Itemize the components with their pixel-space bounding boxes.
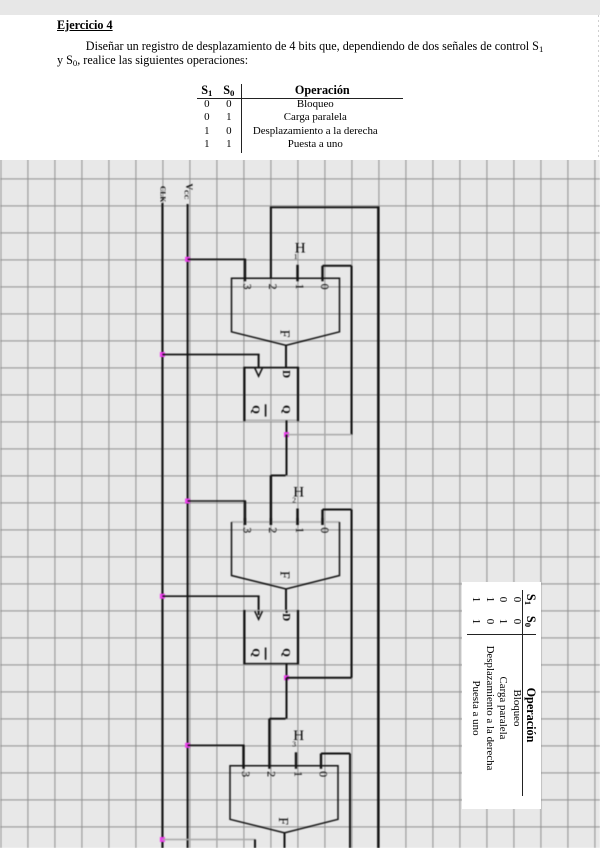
wire Q2 junction to pin0 riser: [287, 677, 352, 679]
svg-text:3: 3: [240, 527, 254, 533]
wire VCC to mux U1 pin3: [188, 259, 246, 281]
svg-text:0: 0: [316, 771, 330, 777]
node H1 input label: [294, 241, 306, 261]
svg-text:1: 1: [293, 284, 307, 290]
wire Q1 junction to pin0 riser: [287, 434, 352, 436]
wire FF1 Q output: [286, 420, 288, 434]
wire mux U1 output to FF1 D: [285, 345, 287, 367]
mux U1 4-to-1 multiplexer: [232, 278, 340, 345]
svg-text:3: 3: [240, 284, 254, 290]
mux U2 4-to-1 multiplexer: [232, 518, 340, 589]
title Ejercicio 4: [57, 18, 113, 33]
white document area: [0, 15, 600, 160]
svg-text:D: D: [280, 370, 292, 378]
svg-text:1: 1: [293, 527, 307, 533]
wire Q2 to mux U3 pin2: [269, 678, 286, 769]
svg-text:F: F: [277, 330, 292, 338]
junction VCC stage 2: [185, 499, 190, 504]
flip-flop FF1 D-type: [244, 367, 298, 421]
wire CLK to FF3 clock: [162, 840, 255, 848]
svg-text:Q: Q: [250, 648, 262, 657]
svg-text:1: 1: [294, 252, 298, 261]
junction VCC stage 3: [185, 743, 190, 748]
mux U3 4-to-1 multiplexer: [230, 766, 338, 833]
rotated truth table: [467, 590, 537, 794]
svg-text:3: 3: [239, 771, 253, 777]
flip-flop FF2 D-type: [244, 610, 298, 664]
node H2 input label: [292, 484, 304, 504]
wire mux U2 pin0 to Q2 feedback: [323, 510, 352, 678]
wire Q1 to mux U2 pin2: [271, 435, 287, 525]
wire mux U3 pin0 to Q3 feedback: [321, 754, 350, 848]
wire H2 to mux U2 pin1: [296, 509, 298, 526]
wire CLK vertical bus: [161, 203, 163, 848]
svg-text:0: 0: [318, 284, 332, 290]
wire VCC to mux U3 pin3: [188, 745, 245, 769]
wire mux U1 pin0 to Q1 feedback: [323, 266, 352, 435]
svg-text:VCC: VCC: [183, 184, 195, 200]
wire CLK to FF1 clock: [162, 355, 259, 368]
node H3 input label: [292, 728, 304, 748]
svg-text:CLK: CLK: [159, 186, 168, 202]
svg-text:Q: Q: [280, 405, 292, 414]
truth table (top): [197, 84, 401, 154]
net VCC label: [183, 184, 195, 200]
wire CLK to FF2 clock: [162, 596, 259, 611]
wire H1 to mux U1 pin1: [296, 265, 298, 282]
white box of rotated table: [462, 582, 541, 809]
paragraph: [57, 40, 545, 69]
svg-text:2: 2: [292, 496, 296, 505]
wire serial-feedback right bus: [377, 206, 379, 848]
svg-text:F: F: [275, 817, 290, 825]
svg-text:0: 0: [318, 527, 332, 533]
wire FF2 Q output: [286, 664, 288, 678]
net CLK label: [159, 186, 168, 202]
wire H3 to mux U3 pin1: [295, 752, 297, 769]
svg-text:2: 2: [266, 527, 280, 533]
svg-text:F: F: [277, 571, 292, 579]
wire VCC vertical bus: [187, 204, 189, 848]
svg-text:3: 3: [292, 739, 296, 748]
junction VCC stage 1: [185, 257, 190, 262]
svg-text:Q: Q: [250, 405, 262, 414]
svg-text:1: 1: [291, 771, 305, 777]
junction CLK stage 2: [160, 594, 165, 599]
wire mux U3 output to FF3 D: [284, 833, 286, 848]
svg-text:Q: Q: [280, 648, 292, 657]
svg-text:2: 2: [265, 771, 279, 777]
svg-text:2: 2: [266, 284, 280, 290]
junction CLK stage 3: [160, 837, 165, 842]
wire serial-feedback top segment: [270, 207, 378, 279]
top gray strip: [0, 0, 600, 15]
junction Q2: [284, 675, 289, 680]
junction CLK stage 1: [160, 352, 165, 357]
wire VCC to mux U2 pin3: [188, 501, 246, 525]
wire mux U2 output to FF2 D: [285, 589, 287, 611]
junction Q1: [284, 432, 289, 437]
svg-text:D: D: [280, 613, 292, 621]
